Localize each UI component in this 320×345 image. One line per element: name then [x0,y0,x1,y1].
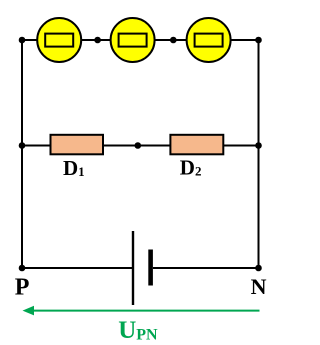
wire right rail [258,40,260,268]
wire middle row [22,145,259,147]
node top-right [255,37,262,44]
wire top rail [22,39,259,41]
lamp L1 [37,18,81,62]
battery short plate (negative) [148,250,153,286]
wire left rail [21,40,23,268]
node bottom-left P [19,265,26,272]
node middle-right [255,142,262,149]
lamp L2 [111,18,155,62]
node between D1 and D2 [135,142,142,149]
arrow UPN direction [23,306,260,316]
svg-text:N: N [251,274,267,299]
node top-left [19,37,26,44]
wire bottom left (P to battery) [22,267,132,269]
battery long plate (positive) [132,231,134,305]
node middle-left [19,142,26,149]
wire bottom right (battery to N) [153,267,259,269]
lamp L3 [187,18,231,62]
svg-text:P: P [15,275,30,301]
resistor D2 [170,135,223,155]
node bottom-right N [255,265,262,272]
resistor D1 [51,135,104,155]
node between L1 and L2 [94,37,101,44]
node between L2 and L3 [170,37,177,44]
